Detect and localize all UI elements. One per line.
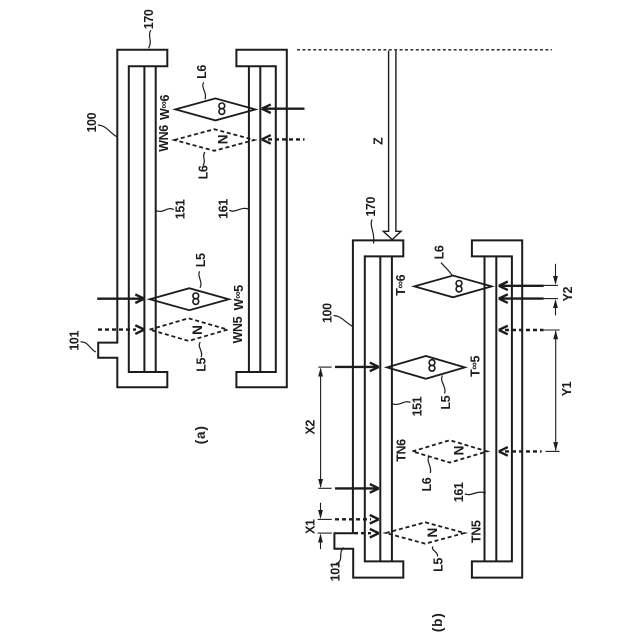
- svg-text:161: 161: [452, 482, 466, 502]
- svg-text:L5: L5: [432, 558, 446, 572]
- light ray dashed arrow left 2 (b): [354, 529, 379, 538]
- dimension X2: [318, 367, 331, 488]
- lens L5 wide-state solid diamond (a): [150, 288, 229, 310]
- svg-text:W∞6: W∞6: [158, 95, 172, 121]
- leader squiggle 151 (a): [156, 209, 174, 212]
- symbol infinity L6 (a): [219, 103, 225, 114]
- svg-text:L6: L6: [432, 245, 446, 259]
- svg-text:T∞6: T∞6: [394, 274, 408, 295]
- light ray solid arrow left 1 (b): [335, 363, 379, 372]
- substrate right rail outline (a): [236, 50, 286, 387]
- leader squiggle L6 bottom (b): [428, 456, 431, 473]
- leader squiggle 100 (b): [334, 316, 353, 327]
- electrode line 151 left panel (b): [380, 256, 392, 561]
- svg-text:101: 101: [68, 331, 82, 351]
- lens L5 narrow-state dashed diamond (b): [386, 522, 465, 543]
- electrode line 161 right panel (a): [249, 66, 260, 372]
- svg-text:Z: Z: [371, 137, 385, 145]
- svg-text:Y1: Y1: [560, 381, 574, 396]
- leader squiggle 101 (b): [336, 548, 344, 564]
- leader squiggle 170 (a): [149, 30, 151, 48]
- svg-text:N: N: [190, 325, 205, 335]
- dashed reference line: [297, 49, 552, 51]
- dimension Y1: [544, 330, 560, 451]
- symbol infinity L5 (a): [193, 293, 199, 304]
- leader squiggle L6 top (b): [441, 263, 452, 276]
- svg-text:L6: L6: [195, 65, 209, 79]
- substrate 100 left rail outline (b): [334, 240, 403, 577]
- light ray dashed arrow right 2 (b): [499, 447, 542, 456]
- svg-text:151: 151: [410, 396, 424, 416]
- lens L6 wide-state solid diamond (a): [175, 98, 255, 120]
- svg-text:100: 100: [321, 303, 335, 323]
- light ray solid arrow left L5 (a): [97, 294, 144, 303]
- light ray solid arrow right 1 (b): [499, 282, 544, 291]
- light ray dashed arrow left L5 (a): [98, 325, 144, 334]
- substrate 100 left rail outline (a): [98, 50, 167, 387]
- svg-text:170: 170: [364, 197, 378, 217]
- lens L6 narrow-state dashed diamond (a): [174, 129, 254, 151]
- light ray solid arrow right L6 (a): [262, 104, 305, 113]
- svg-text:N: N: [425, 528, 440, 538]
- lens L6 wide-state solid diamond (b): [414, 276, 491, 298]
- lens L5 narrow-state dashed diamond (a): [150, 318, 228, 341]
- leader squiggle L5 mid (b): [442, 376, 445, 394]
- electrode line 151 left panel (a): [144, 66, 155, 372]
- leader squiggle L5 top (a): [199, 271, 201, 288]
- leader squiggle 161 (a): [229, 208, 249, 211]
- light ray dashed arrow left 1 (b): [335, 515, 379, 524]
- leader squiggle 151 (b): [392, 402, 410, 405]
- svg-text:L5: L5: [439, 395, 453, 409]
- svg-text:N: N: [452, 446, 467, 456]
- svg-text:170: 170: [142, 9, 156, 29]
- substrate right rail outline (b): [472, 240, 522, 577]
- svg-text:N: N: [215, 135, 230, 145]
- svg-text:TN6: TN6: [394, 439, 408, 462]
- light ray solid arrow left 2 (b): [335, 484, 379, 493]
- svg-text:TN5: TN5: [470, 520, 484, 543]
- dimension Y2: [544, 264, 559, 316]
- svg-text:X2: X2: [303, 420, 317, 435]
- light ray dashed arrow right L6 (a): [262, 135, 305, 144]
- hollow displacement arrow Z: [383, 51, 401, 240]
- lens L5 wide-state solid diamond (b): [387, 356, 465, 379]
- svg-text:151: 151: [174, 199, 188, 219]
- lens L6 narrow-state dashed diamond (b): [412, 440, 487, 462]
- light ray dashed arrow right 1 (b): [499, 326, 544, 335]
- svg-text:T∞5: T∞5: [469, 356, 483, 377]
- svg-text:WN5: WN5: [231, 316, 245, 343]
- dimension X1: [318, 503, 332, 549]
- light ray solid arrow right 2 (b): [499, 294, 544, 303]
- leader squiggle 101 (a): [81, 342, 96, 352]
- svg-text:L6: L6: [196, 165, 210, 179]
- svg-text:(b): (b): [430, 612, 445, 632]
- svg-text:100: 100: [85, 112, 99, 132]
- leader squiggle L6 top (a): [203, 82, 206, 99]
- leader squiggle 161 (b): [465, 492, 486, 494]
- symbol infinity T6 (b): [456, 281, 462, 292]
- svg-text:Y2: Y2: [561, 287, 575, 302]
- svg-text:161: 161: [216, 199, 230, 219]
- leader squiggle L6 bottom (a): [203, 152, 205, 166]
- svg-text:WN6: WN6: [157, 125, 171, 152]
- svg-text:X1: X1: [303, 519, 317, 534]
- symbol infinity T5 (b): [429, 360, 435, 371]
- svg-text:L5: L5: [194, 253, 208, 267]
- svg-text:101: 101: [328, 561, 342, 581]
- svg-text:L5: L5: [195, 357, 209, 371]
- svg-text:W∞5: W∞5: [232, 285, 246, 311]
- leader squiggle L5 bottom (b): [432, 547, 437, 557]
- leader squiggle 170 (b): [371, 220, 374, 244]
- leader squiggle L5 bottom (a): [199, 342, 201, 357]
- svg-text:(a): (a): [193, 425, 208, 444]
- leader squiggle 100 (a): [98, 125, 117, 137]
- svg-text:L6: L6: [420, 477, 434, 491]
- electrode line 161 right panel (b): [485, 256, 497, 561]
